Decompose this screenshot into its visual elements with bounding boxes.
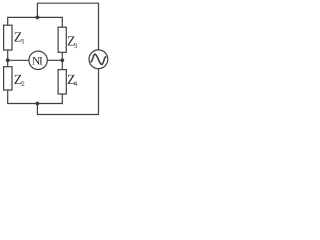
- node dot bottom: [36, 102, 40, 106]
- wire bottom node horizontal: [8, 90, 63, 103]
- wire top node horizontal: [8, 17, 63, 27]
- label Z1: [14, 30, 25, 45]
- svg-text:2: 2: [21, 80, 25, 88]
- label Z2: [14, 73, 25, 88]
- resistor Z4 box: [58, 70, 66, 94]
- resistor Z3 box: [58, 27, 66, 52]
- node dot left: [6, 58, 10, 62]
- wire NI right: [47, 59, 62, 61]
- svg-text:4: 4: [74, 80, 78, 88]
- null indicator NI circle: [29, 51, 47, 69]
- wire left column mid: [7, 50, 9, 67]
- svg-text:1: 1: [21, 38, 25, 46]
- resistor Z2 box: [4, 67, 12, 90]
- wire top stub: [37, 3, 98, 50]
- svg-text:3: 3: [74, 42, 78, 50]
- node dot top: [36, 16, 40, 20]
- wire right column bottom: [37, 69, 98, 115]
- wire NI left: [8, 59, 29, 61]
- AC source sine wave: [91, 54, 106, 64]
- label Z3: [67, 35, 78, 50]
- AC source circle: [89, 50, 108, 69]
- wire middle column mid: [61, 52, 63, 69]
- node dot right: [60, 58, 64, 62]
- resistor Z1 box: [4, 25, 12, 50]
- svg-text:NI: NI: [32, 55, 43, 67]
- label Z4: [67, 73, 78, 88]
